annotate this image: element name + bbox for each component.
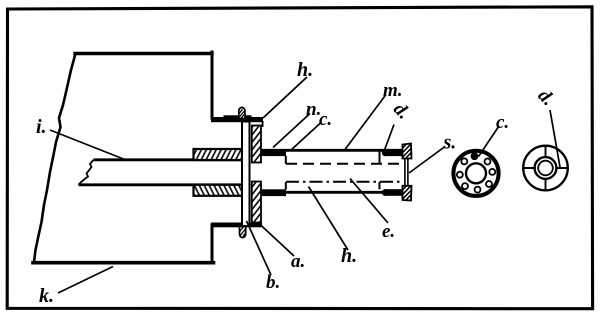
leader c1: [290, 123, 321, 152]
cylinder m top wall: [262, 149, 404, 152]
leader h top: [263, 77, 307, 118]
leader i: [50, 130, 126, 160]
stud bolt bottom: [240, 227, 246, 238]
leader h bottom: [309, 187, 349, 251]
wall K outline: [33, 52, 214, 263]
tube end view d (circle with cross and ring): [523, 146, 568, 191]
bolt bar right bottom: [382, 189, 403, 196]
svg-text:c.: c.: [319, 109, 332, 130]
inner head step left: [285, 156, 287, 190]
bolt bar left bottom: [262, 189, 287, 196]
svg-text:h.: h.: [341, 245, 357, 267]
end cap s double line: [405, 159, 408, 187]
hidden tube d lower dash-dot line: [286, 181, 400, 183]
shaft i: [79, 160, 243, 185]
top ledge of wall niche: [211, 117, 263, 122]
leader m: [345, 95, 386, 150]
leader b: [247, 221, 272, 275]
leader d2: [550, 110, 560, 167]
svg-text:s.: s.: [443, 132, 457, 154]
leader k: [58, 267, 113, 294]
bolt bar right top: [382, 149, 403, 156]
gland strip lower (hatched): [252, 182, 261, 223]
packing gland lower block: [194, 185, 243, 196]
end flange nut bottom (hatched): [403, 186, 412, 201]
inner head step right: [379, 151, 381, 190]
svg-text:b.: b.: [266, 272, 280, 293]
leader n: [273, 114, 310, 148]
leader s: [409, 147, 445, 174]
leader c2: [479, 126, 500, 157]
leader d1: [385, 125, 395, 151]
stud bolt top: [239, 107, 245, 118]
svg-text:a.: a.: [291, 251, 305, 272]
svg-text:h.: h.: [297, 59, 313, 81]
svg-text:i.: i.: [36, 116, 47, 138]
plate b (vertical flange plate): [242, 122, 250, 227]
cylinder m bottom wall: [262, 191, 404, 194]
gland strip upper (hatched): [252, 126, 261, 163]
packing gland upper block: [194, 149, 243, 160]
svg-text:e.: e.: [382, 221, 395, 242]
leader e: [350, 179, 388, 224]
svg-text:k.: k.: [39, 285, 54, 307]
niche corner line: [262, 121, 264, 127]
bolt bar left top: [262, 149, 287, 156]
bottom ledge of wall niche: [211, 223, 262, 228]
flange end view c (circle with bolt holes): [453, 151, 498, 196]
leader a: [259, 224, 294, 257]
hidden tube d upper dashed line: [286, 163, 400, 165]
svg-text:m.: m.: [383, 80, 403, 101]
end flange nut top (hatched): [403, 144, 412, 159]
svg-text:c.: c.: [496, 112, 509, 133]
